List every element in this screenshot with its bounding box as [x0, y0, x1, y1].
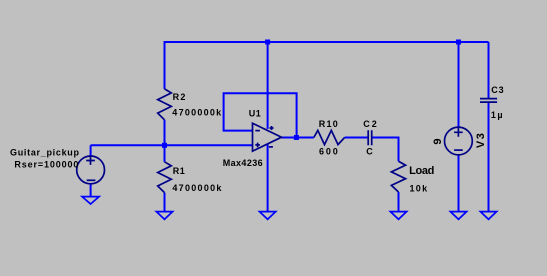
op-amp V- minus mark [269, 146, 273, 148]
wire R1 bottom lead [164, 193, 166, 212]
wire C3 bottom lead [488, 103, 490, 212]
svg-text:Rser=100000: Rser=100000 [14, 160, 78, 170]
ground opamp V- [260, 212, 276, 220]
wire R10 to C2 [345, 137, 368, 139]
svg-text:R10: R10 [319, 119, 338, 129]
minus mark V3 [454, 149, 463, 151]
wire opamp output to R10 [282, 137, 314, 139]
ground R1 [156, 212, 172, 220]
wire R2 bottom to junction to R1 top [164, 120, 166, 162]
wire Load bottom lead [398, 192, 400, 212]
capacitor C2 plates [368, 130, 372, 145]
op-amp inverting input minus mark [255, 130, 260, 132]
ground pickup [82, 197, 99, 204]
wire input net pickup to opamp noninverting [91, 144, 253, 146]
resistor R2 body [158, 89, 172, 120]
ground Load [390, 212, 406, 220]
wire C2 to Load top [372, 138, 399, 162]
svg-text:Guitar_pickup: Guitar_pickup [10, 148, 80, 158]
svg-text:C3: C3 [491, 85, 504, 95]
wire V3 bottom lead [458, 155, 460, 212]
wire pickup top lead [90, 145, 92, 156]
svg-text:1µ: 1µ [491, 110, 503, 120]
resistor Load body [391, 161, 405, 192]
wire pickup bottom lead [90, 184, 92, 197]
svg-text:4700000k: 4700000k [172, 183, 222, 193]
ground C3 [480, 212, 496, 220]
svg-text:4700000k: 4700000k [172, 108, 222, 118]
wire C3 top lead [488, 42, 490, 98]
wire opamp V+ supply lead [267, 41, 269, 129]
svg-text:10k: 10k [410, 183, 429, 193]
svg-text:600: 600 [319, 146, 338, 156]
junction node output-feedback [294, 135, 299, 140]
minus mark pickup [87, 179, 96, 181]
ground V3 [450, 212, 466, 220]
junction node rail-V3 [456, 40, 461, 45]
svg-text:R2: R2 [173, 92, 186, 102]
junction node R2-R1-input [162, 143, 167, 148]
plus mark pickup [86, 156, 95, 165]
junction node rail-opamp supply [265, 40, 270, 45]
svg-text:9: 9 [432, 138, 444, 144]
capacitor C3 plates [480, 99, 497, 103]
wire opamp V- supply lead [267, 144, 269, 212]
voltage source V3 circle [445, 127, 473, 155]
svg-text:R1: R1 [173, 166, 185, 176]
svg-text:C: C [366, 146, 373, 156]
op-amp noninverting input plus mark [255, 143, 260, 148]
resistor R1 body [158, 162, 172, 193]
resistor R10 body [314, 130, 345, 144]
voltage source Guitar_pickup circle [77, 156, 105, 184]
wire feedback loop [224, 93, 297, 137]
op-amp U1 triangle [253, 123, 282, 151]
wire V3 top lead [458, 41, 460, 127]
wire R2 top lead [164, 41, 166, 89]
plus mark V3 [454, 128, 463, 137]
svg-text:Load: Load [409, 165, 434, 177]
wire top rail [165, 41, 489, 43]
svg-text:U1: U1 [249, 109, 261, 119]
op-amp V+ plus mark [270, 126, 274, 130]
svg-text:Max4236: Max4236 [223, 158, 263, 168]
